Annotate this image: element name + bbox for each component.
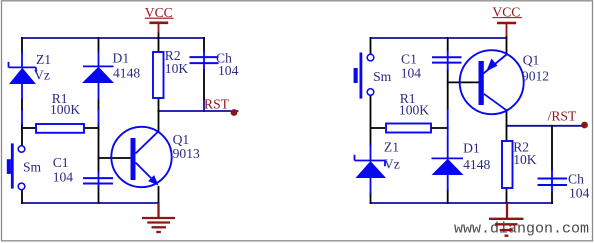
svg-text:100K: 100K [50, 102, 80, 117]
svg-text:Vz: Vz [384, 157, 400, 172]
svg-text:10K: 10K [165, 61, 189, 76]
svg-text:Q1: Q1 [173, 132, 190, 147]
svg-text:9013: 9013 [173, 146, 200, 161]
svg-text:10K: 10K [513, 152, 537, 167]
svg-text:104: 104 [218, 63, 239, 78]
svg-text:Z1: Z1 [384, 139, 399, 154]
svg-text:Ch: Ch [568, 172, 584, 187]
svg-text:104: 104 [569, 186, 590, 201]
svg-text:9012: 9012 [522, 69, 549, 84]
svg-text:RST: RST [204, 97, 230, 112]
svg-text:100K: 100K [399, 103, 429, 118]
svg-text:D1: D1 [113, 50, 130, 65]
svg-text:Z1: Z1 [36, 52, 51, 67]
svg-text:www.diangon.com: www.diangon.com [454, 221, 589, 238]
svg-text:4148: 4148 [113, 66, 140, 81]
svg-text:Vz: Vz [34, 67, 50, 82]
svg-text:C1: C1 [53, 155, 69, 170]
svg-text:D1: D1 [463, 140, 480, 155]
svg-text:C1: C1 [401, 52, 417, 67]
svg-text:Sm: Sm [23, 160, 42, 175]
svg-text:VCC: VCC [492, 4, 520, 19]
svg-text:104: 104 [401, 66, 422, 81]
svg-text:Sm: Sm [373, 69, 392, 84]
svg-text:VCC: VCC [145, 5, 173, 20]
svg-text:104: 104 [53, 170, 74, 185]
svg-text:4148: 4148 [463, 157, 490, 172]
svg-text:Q1: Q1 [523, 52, 540, 67]
svg-text:/RST: /RST [548, 109, 577, 124]
